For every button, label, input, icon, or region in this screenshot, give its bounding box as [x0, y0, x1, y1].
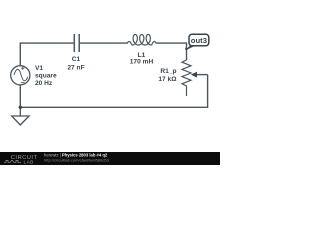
node flag out3	[187, 34, 209, 49]
svg-text:C1: C1	[72, 56, 81, 63]
svg-text:V1: V1	[35, 65, 43, 72]
svg-text:out3: out3	[191, 36, 207, 45]
wire top rail left segment (V1 top to C1 left plate)	[20, 43, 74, 66]
svg-text:27 nF: 27 nF	[67, 65, 84, 72]
junction dot out3 node	[185, 47, 188, 50]
svg-text:170 mH: 170 mH	[130, 59, 154, 66]
inductor L1	[127, 35, 156, 46]
ground	[12, 108, 29, 125]
svg-text:17 kΩ: 17 kΩ	[158, 76, 177, 83]
wire wiper horizontal	[193, 74, 208, 76]
svg-text:square: square	[35, 73, 57, 80]
wiper arrow of R1_p	[191, 72, 197, 78]
watermark bar	[0, 152, 220, 165]
svg-text:20 Hz: 20 Hz	[35, 80, 53, 87]
junction dot ground node	[19, 106, 22, 109]
wire top rail right segment (L1 to corner above R1_p)	[156, 43, 187, 60]
wire V1 bottom to ground junction	[19, 85, 21, 108]
potentiometer R1_p	[182, 60, 191, 96]
logo waveform	[4, 160, 21, 162]
wire bottom rail	[20, 75, 207, 108]
wire top rail mid segment (C1 right plate to L1)	[80, 42, 128, 44]
svg-text:R1_p: R1_p	[160, 68, 176, 75]
svg-text:LAB: LAB	[24, 159, 34, 165]
capacitor C1	[74, 34, 79, 52]
voltage source V1	[11, 66, 30, 85]
svg-text:http://circuitlab.com/c6wt/be8: http://circuitlab.com/c6wt/be8586d53	[44, 158, 110, 163]
